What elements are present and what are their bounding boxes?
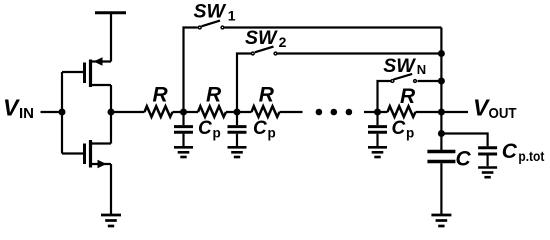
ground (Cp3) (368, 147, 387, 157)
wire SW1 left vertical (184, 28, 198, 113)
capacitor Cp1 (174, 112, 221, 146)
svg-text:2: 2 (279, 34, 287, 50)
node Vin label (3, 95, 34, 122)
svg-text:p.tot: p.tot (518, 149, 544, 164)
svg-text:R: R (400, 85, 416, 108)
node SWN to bus junction (438, 78, 445, 85)
svg-text:1: 1 (228, 7, 236, 23)
resistor R1 (145, 84, 173, 117)
ground (Cp2) (228, 147, 247, 157)
svg-text:SW: SW (245, 27, 278, 49)
node ellipsis dots (316, 109, 353, 116)
node J1 (180, 109, 187, 116)
svg-text:C: C (253, 118, 267, 139)
resistor R2 (198, 84, 226, 117)
ground (Cp1) (174, 147, 193, 157)
resistor R3 (252, 84, 280, 117)
svg-text:C: C (502, 140, 518, 163)
switch SWN (383, 55, 441, 83)
wire PMOS drain to output node (110, 85, 112, 112)
svg-text:C: C (392, 118, 406, 139)
svg-text:p: p (406, 126, 414, 141)
node inverter output (108, 109, 115, 116)
switch SW2 (245, 27, 441, 55)
node J3 (374, 109, 381, 116)
wire C bottom to ground (440, 163, 442, 215)
wire R3 to ellipsis (280, 111, 303, 113)
svg-text:R: R (153, 84, 169, 107)
transistor M1 PMOS (62, 57, 111, 87)
power rail VDD (95, 11, 126, 14)
switch SW1 (194, 1, 442, 29)
wire VDD to PMOS source (110, 13, 112, 62)
svg-text:R: R (259, 84, 275, 107)
node SW2 to bus junction (438, 50, 445, 57)
wire R2 to R3 (226, 111, 252, 113)
capacitor Cp3 (368, 112, 414, 146)
node Vout label (473, 95, 517, 122)
node Vout junction (438, 109, 445, 116)
wire R4 to Vout node (416, 111, 469, 113)
svg-text:p: p (268, 126, 276, 141)
capacitor Cptot (478, 140, 545, 166)
svg-text:p: p (213, 126, 221, 141)
wire Vin lead (41, 111, 63, 113)
svg-text:C: C (456, 148, 472, 171)
svg-text:N: N (417, 62, 426, 77)
svg-text:IN: IN (19, 105, 34, 122)
node J2 (234, 109, 241, 116)
capacitor C (427, 148, 471, 171)
node Cptot branch junction (438, 130, 445, 137)
ground (inverter) (101, 215, 121, 226)
node gate junction (59, 109, 66, 116)
wire Cptot branch (441, 134, 487, 147)
capacitor Cp2 (228, 112, 276, 146)
svg-text:R: R (206, 84, 222, 107)
wire output to R1 (111, 111, 145, 113)
wire gate vertical (61, 72, 63, 154)
svg-text:SW: SW (383, 55, 416, 77)
wire SW2 left vertical (237, 54, 251, 113)
svg-text:V: V (3, 95, 20, 121)
wire NMOS drain to output node (110, 112, 112, 144)
ground (C) (431, 215, 451, 226)
wire NMOS source to ground (110, 164, 112, 215)
wire R1 to R2 (173, 111, 199, 113)
svg-text:V: V (473, 95, 490, 121)
svg-text:OUT: OUT (489, 105, 517, 122)
ground (Cptot) (478, 168, 497, 178)
resistor R4 (388, 85, 417, 117)
wire right vertical bus (440, 28, 442, 151)
wire ellipsis to J3 (364, 111, 388, 113)
wire SWN left vertical (378, 81, 391, 112)
transistor M2 NMOS (62, 140, 111, 168)
svg-text:SW: SW (194, 1, 227, 23)
svg-text:C: C (198, 118, 212, 139)
